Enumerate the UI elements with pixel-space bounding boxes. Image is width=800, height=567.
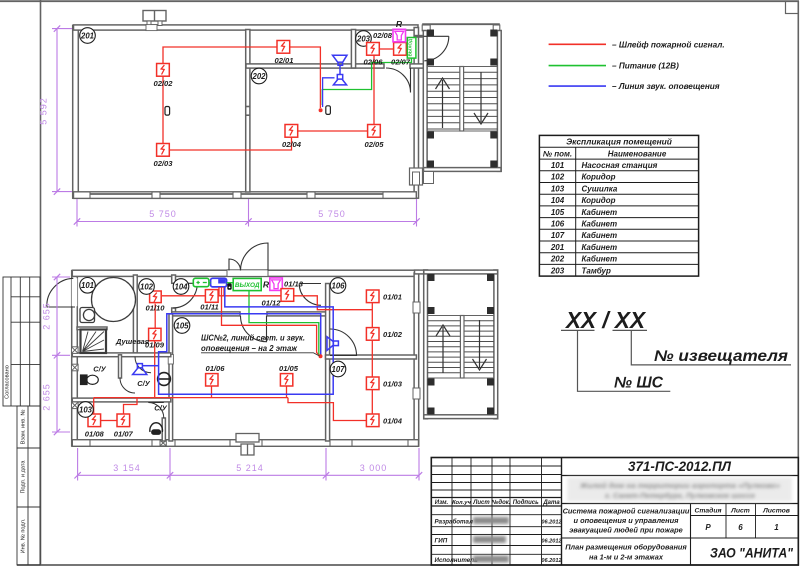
room label 104 (173, 279, 189, 295)
svg-text:R: R (263, 279, 270, 289)
landing exterior stub (410, 168, 434, 185)
svg-text:ГИП: ГИП (435, 538, 448, 545)
wall: floor1 outer right (414, 273, 419, 446)
svg-text:201: 201 (550, 243, 565, 252)
svg-text:Подпись: Подпись (513, 500, 539, 506)
svg-text:106: 106 (331, 281, 345, 290)
wire red riser from 02/01 (290, 47, 320, 108)
svg-text:оповещения – на 2 этаж: оповещения – на 2 этаж (201, 343, 298, 353)
detector 02/02 (157, 64, 170, 77)
stair columns floor1 (428, 274, 495, 415)
underline 1 (561, 329, 595, 331)
door post 105-СУ (168, 355, 173, 365)
svg-text:– Питание (12В): – Питание (12В) (612, 62, 679, 71)
wall device 202 (326, 106, 331, 115)
legend red line (549, 43, 606, 45)
svg-text:Сушилка: Сушилка (582, 184, 618, 193)
door 202 arc (386, 68, 411, 93)
svg-text:Экспликация помещений: Экспликация помещений (566, 137, 672, 147)
wall 104|105 left seg (172, 312, 240, 316)
svg-text:01/06: 01/06 (205, 364, 225, 373)
svg-text:5 592: 5 592 (39, 97, 49, 125)
room label 203 (356, 31, 372, 47)
wire red 01/07 drop (124, 398, 138, 414)
detector 01/04 (366, 414, 379, 427)
entrance opening (227, 270, 268, 277)
wire red 02/02-02/03 (162, 76, 164, 143)
wire red 01/06 stub (211, 386, 213, 397)
door 102-104 arc (173, 283, 198, 308)
svg-text:104: 104 (551, 196, 565, 205)
wall: floor2 outer bottom (74, 192, 417, 199)
left margin stamp table (3, 277, 40, 565)
leader line (293, 353, 320, 356)
svg-text:– Линия звук. оповещения: – Линия звук. оповещения (612, 82, 720, 91)
door СУ2 arc (148, 403, 164, 419)
svg-text:02/01: 02/01 (274, 56, 293, 65)
riser junction floor2 (319, 108, 323, 112)
svg-text:С/У: С/У (93, 364, 106, 373)
svg-text:R: R (396, 19, 403, 29)
stair divider floor1 (460, 316, 464, 379)
svg-text:02/08: 02/08 (373, 31, 393, 40)
sink 101 (80, 308, 95, 323)
door 105 arc down (241, 316, 267, 342)
dimension bottom floor1 (78, 474, 419, 476)
detector 02/01 (277, 41, 290, 54)
svg-text:План размещения оборудования: План размещения оборудования (565, 543, 687, 552)
svg-text:202: 202 (550, 255, 565, 264)
leader № ШС (578, 330, 671, 391)
wall 104|105 right seg (267, 312, 329, 316)
legend green line (549, 65, 606, 67)
svg-text:6: 6 (738, 523, 743, 532)
detector 02/06 (367, 43, 380, 56)
svg-text:202: 202 (251, 72, 266, 81)
svg-text:01/10: 01/10 (145, 304, 165, 313)
svg-text:107: 107 (551, 231, 565, 240)
tank circle 101 (92, 278, 136, 322)
left door arc (47, 278, 74, 306)
svg-text:– Шлейф пожарной сигнал.: – Шлейф пожарной сигнал. (612, 40, 725, 49)
window right wall 107 (413, 388, 420, 399)
left entrance opening (72, 278, 78, 306)
svg-text:Кабинет: Кабинет (582, 231, 618, 240)
speaker floor2 upper (333, 55, 348, 65)
room label 103 (78, 402, 94, 418)
wire red 106 chain (371, 303, 373, 414)
room label 101 (80, 278, 96, 294)
door СУ arc (120, 357, 151, 393)
svg-text:102: 102 (140, 282, 154, 291)
svg-text:06.2012: 06.2012 (541, 558, 562, 564)
svg-text:№ извещателя: № извещателя (654, 348, 788, 365)
wall 102|104 lower (172, 308, 176, 316)
door 106 leaf (299, 283, 321, 285)
window X (72, 347, 79, 354)
detector 01/08 (88, 414, 101, 427)
speaker floor2 lower (333, 75, 346, 85)
wall: 201|202 (246, 30, 250, 193)
window glazing (241, 192, 307, 194)
svg-text:Коридор: Коридор (582, 173, 616, 182)
legend blue line (549, 85, 606, 87)
wall: floor1 outer bottom (72, 440, 418, 447)
svg-text:Душевая: Душевая (115, 337, 150, 346)
stair hatch box (81, 330, 107, 354)
speaker СУ (133, 364, 147, 375)
svg-text:5 214: 5 214 (236, 463, 264, 473)
svg-text:2 655: 2 655 (42, 302, 52, 330)
blurred address (567, 478, 792, 502)
detector 01/03 (366, 377, 379, 390)
wall: 203 left (351, 30, 355, 69)
svg-text:371-ПС-2012.ПЛ: 371-ПС-2012.ПЛ (628, 459, 732, 474)
entrance door arcs (241, 243, 269, 271)
detector 02/03 (157, 144, 170, 157)
underline 2 (613, 329, 648, 331)
wire red 02/04-02/05 (298, 130, 368, 132)
svg-text:Кол.уч: Кол.уч (452, 500, 471, 506)
blurred names (473, 517, 509, 563)
svg-text:3 000: 3 000 (360, 463, 388, 473)
svg-text:101: 101 (81, 281, 94, 290)
svg-text:Коридор: Коридор (582, 196, 616, 205)
wire red bus room105 (94, 397, 288, 399)
toilet СУ top (81, 375, 99, 385)
svg-text:01/07: 01/07 (114, 430, 134, 439)
wall: 202 top (246, 64, 384, 68)
wall: floor2 outer left (73, 25, 79, 198)
svg-text:02/04: 02/04 (282, 140, 302, 149)
detector 01/09 (149, 328, 161, 340)
detector 01/10 (150, 291, 162, 303)
svg-text:Кабинет: Кабинет (582, 255, 618, 264)
manual call point 01/13 (270, 278, 283, 291)
svg-text:106: 106 (551, 220, 565, 229)
svg-text:ВЫХОД: ВЫХОД (235, 282, 260, 289)
stair arrow down (474, 72, 488, 124)
svg-text:С/У: С/У (137, 379, 150, 388)
svg-text:06.2012: 06.2012 (541, 520, 562, 526)
svg-text:ЗАО "АНИТА": ЗАО "АНИТА" (710, 545, 793, 561)
wire red riser to floor2 (222, 296, 321, 356)
svg-text:01/03: 01/03 (383, 379, 403, 388)
hatch room top (77, 327, 107, 330)
svg-text:Р: Р (705, 523, 711, 532)
door stairwell-203 arc (424, 36, 449, 61)
svg-text:эвакуацией людей при пожаре: эвакуацией людей при пожаре (569, 526, 683, 535)
svg-text:и оповещения и управления: и оповещения и управления (574, 516, 680, 525)
svg-text:ВЫХОД: ВЫХОД (408, 38, 413, 56)
stair arrow up floor1 (436, 325, 450, 373)
svg-text:№ ШС: № ШС (614, 375, 664, 392)
wire red corridor 01/10-01/11 (162, 295, 205, 297)
wall: 202 top right pillar (410, 64, 427, 68)
svg-text:103: 103 (79, 405, 93, 414)
svg-text:на 1-м и 2-м этажах: на 1-м и 2-м этажах (589, 553, 664, 562)
door 102-104 leaf (173, 282, 198, 284)
svg-text:102: 102 (551, 173, 565, 182)
svg-text:103: 103 (551, 184, 565, 193)
wire red 02/03-02/04 (170, 137, 292, 150)
svg-text:01/05: 01/05 (279, 364, 299, 373)
svg-text:02/06: 02/06 (363, 58, 383, 67)
window glazing (90, 192, 152, 194)
wall 102|104 upper (172, 275, 176, 283)
svg-text:Исполнитель: Исполнитель (435, 557, 479, 564)
bottom vent stub (236, 434, 259, 456)
wire red corridor to 106 (294, 296, 373, 310)
wire red 01/09 riser (154, 341, 156, 398)
wall device 201 (165, 107, 170, 116)
exit sign horizontal (233, 278, 261, 290)
svg-text:105: 105 (551, 208, 565, 217)
door gap top wall (146, 25, 157, 31)
door 107 arc (330, 329, 357, 356)
detector 02/05 (368, 125, 381, 138)
svg-text:107: 107 (331, 365, 345, 374)
dimension 2 655 x2 (56, 277, 58, 432)
stair arrow up (436, 78, 450, 128)
svg-text:5 750: 5 750 (149, 209, 177, 219)
parapet corner boxes (422, 25, 500, 31)
window X (72, 402, 79, 409)
svg-text:201: 201 (80, 31, 94, 40)
svg-text:Лист: Лист (730, 508, 750, 515)
svg-text:№док.: №док. (491, 499, 511, 506)
wire blue СУ speaker tap (143, 365, 159, 367)
svg-text:Стадия: Стадия (694, 507, 721, 515)
svg-text:01/12: 01/12 (261, 298, 281, 307)
svg-text:01/02: 01/02 (383, 330, 403, 339)
svg-text:Инв. № подл.: Инв. № подл. (21, 518, 27, 553)
room label 107 (330, 361, 346, 377)
detector 01/12 (281, 289, 294, 302)
power supply unit (193, 278, 209, 286)
svg-text:104: 104 (174, 282, 188, 291)
wall 101|СУ horizontal (72, 353, 171, 357)
window glazing (315, 192, 383, 194)
wall corridor|106 vertical (326, 284, 330, 442)
svg-text:02/03: 02/03 (153, 159, 173, 168)
window right wall (413, 172, 420, 185)
stair arrow down floor1 (473, 320, 487, 370)
window X bottom wall (160, 440, 166, 446)
svg-text:Взам. инв. №: Взам. инв. № (21, 410, 27, 445)
wire green panel-exit (227, 282, 234, 284)
wall 203-stairwell link (415, 35, 424, 38)
wire blue between speakers (339, 65, 341, 74)
riser junction floor1 (319, 354, 323, 358)
wall 106|107 (326, 355, 417, 359)
wire red 02/06-02/07 (379, 48, 393, 50)
svg-text:Листов: Листов (762, 508, 790, 515)
wall СУ|103 horizontal (72, 398, 171, 402)
toilet СУ bottom (150, 423, 163, 434)
wire red panel drops (218, 287, 220, 296)
wire green floor1 (249, 291, 319, 355)
svg-text:№ пом.: № пом. (543, 149, 572, 158)
svg-text:02/05: 02/05 (364, 140, 384, 149)
wire red 02/01 left to 02/02 chain (163, 47, 277, 64)
svg-text:Насосная станция: Насосная станция (582, 161, 658, 170)
wall: floor2 outer right (414, 28, 418, 199)
svg-text:Согласовано: Согласовано (5, 365, 11, 399)
stairs steps floor1 (428, 321, 495, 373)
room label 202 (251, 68, 267, 84)
window right wall 106 (413, 302, 420, 313)
svg-text:Разработал: Разработал (435, 519, 474, 526)
leader № извещателя (631, 330, 791, 365)
control panel (211, 278, 227, 287)
detector 01/06 (206, 374, 218, 386)
svg-text:Наименование: Наименование (608, 149, 667, 158)
room label 102 (139, 279, 155, 295)
wire red 01/08 drop (93, 398, 95, 414)
svg-text:01/11: 01/11 (200, 302, 218, 311)
wire red 02/05-02/06 (373, 55, 375, 124)
stair columns (427, 30, 497, 168)
stairwell parapet top (422, 23, 500, 25)
manual call point 02/08 (393, 29, 406, 42)
svg-text:С/У: С/У (154, 403, 167, 412)
room label 106 (330, 278, 346, 294)
wire blue sound riser (323, 78, 335, 107)
window glazing (160, 192, 233, 194)
wire red 01/10-01/09 (154, 304, 156, 329)
wall tick marks (246, 106, 251, 108)
stair divider (460, 67, 464, 132)
svg-text:01/08: 01/08 (85, 430, 105, 439)
wall: floor1 outer left (72, 271, 78, 446)
detector 02/07 (394, 43, 407, 56)
wall 101|102 (133, 275, 137, 353)
detector 01/01 (366, 290, 379, 303)
svg-text:Жилой дом на территории аэропо: Жилой дом на территории аэропорта «Пулко… (579, 481, 780, 490)
svg-text:06.2012: 06.2012 (541, 539, 562, 545)
svg-text:105: 105 (175, 321, 189, 330)
wall 105|СУ vertical (169, 314, 173, 441)
room label 105 (174, 318, 190, 334)
wire red 01/04 return (288, 398, 367, 421)
exit sign vertical (407, 38, 416, 59)
svg-text:Тамбур: Тамбур (582, 266, 611, 275)
wire blue loop floor1 (159, 287, 334, 394)
svg-text:Система пожарной сигнализации: Система пожарной сигнализации (563, 507, 690, 516)
svg-text:2 655: 2 655 (42, 383, 52, 411)
wire red 01/05 stub (286, 386, 288, 397)
svg-text:Дата: Дата (542, 500, 560, 506)
svg-text:XX / XX: XX / XX (564, 307, 647, 333)
wall: floor1 outer top (72, 270, 418, 276)
detector 01/07 (117, 414, 130, 427)
wall: floor2 outer top (74, 25, 419, 30)
detector 02/04 (285, 125, 298, 138)
wire green psu-panel (209, 282, 211, 284)
wire red 01/08-01/07 (101, 420, 117, 422)
svg-text:Кабинет: Кабинет (582, 220, 618, 229)
speaker 106 (327, 337, 338, 351)
wire red corridor 01/11-01/12 (218, 295, 281, 297)
svg-text:Подп. и дата: Подп. и дата (21, 460, 27, 494)
window X (72, 364, 79, 371)
dimension 5 750 x2 (77, 221, 417, 223)
svg-text:01/04: 01/04 (383, 416, 403, 425)
dimension 5 592 (56, 29, 58, 192)
detector 01/05 (280, 374, 292, 386)
svg-text:г. Санкт-Петербург, Пулковское: г. Санкт-Петербург, Пулковское шоссе (605, 491, 756, 500)
door 106 arc (299, 284, 321, 306)
svg-text:3 154: 3 154 (113, 463, 141, 473)
detector 01/11 (205, 290, 218, 303)
left door leaf (47, 306, 75, 308)
svg-text:Изм.: Изм. (435, 500, 449, 506)
svg-text:5 750: 5 750 (318, 209, 346, 219)
svg-text:1: 1 (774, 523, 779, 532)
detector 01/02 (366, 328, 379, 341)
svg-text:Кабинет: Кабинет (582, 208, 618, 217)
svg-text:101: 101 (551, 161, 565, 170)
stairs steps (427, 72, 498, 129)
svg-text:Лист: Лист (472, 500, 490, 506)
stairwell floor1 (415, 270, 428, 274)
vent stack (143, 11, 166, 26)
svg-text:ШС№2, линий свет. и звук.: ШС№2, линий свет. и звук. (201, 332, 305, 342)
stairwell floor2 (423, 31, 427, 172)
room label 201 (80, 28, 96, 44)
small black device (227, 283, 231, 290)
svg-text:01/01: 01/01 (383, 292, 402, 301)
svg-text:Кабинет: Кабинет (582, 243, 618, 252)
svg-text:01/13: 01/13 (284, 280, 304, 289)
wire green power to exit sign (322, 58, 411, 105)
wall 103|СУ2 (162, 418, 165, 441)
sink circle (157, 373, 171, 386)
wall inside СУ (119, 355, 122, 378)
svg-text:203: 203 (550, 266, 565, 275)
door stairwell-203 leaf (424, 35, 449, 37)
svg-text:02/02: 02/02 (153, 79, 173, 88)
